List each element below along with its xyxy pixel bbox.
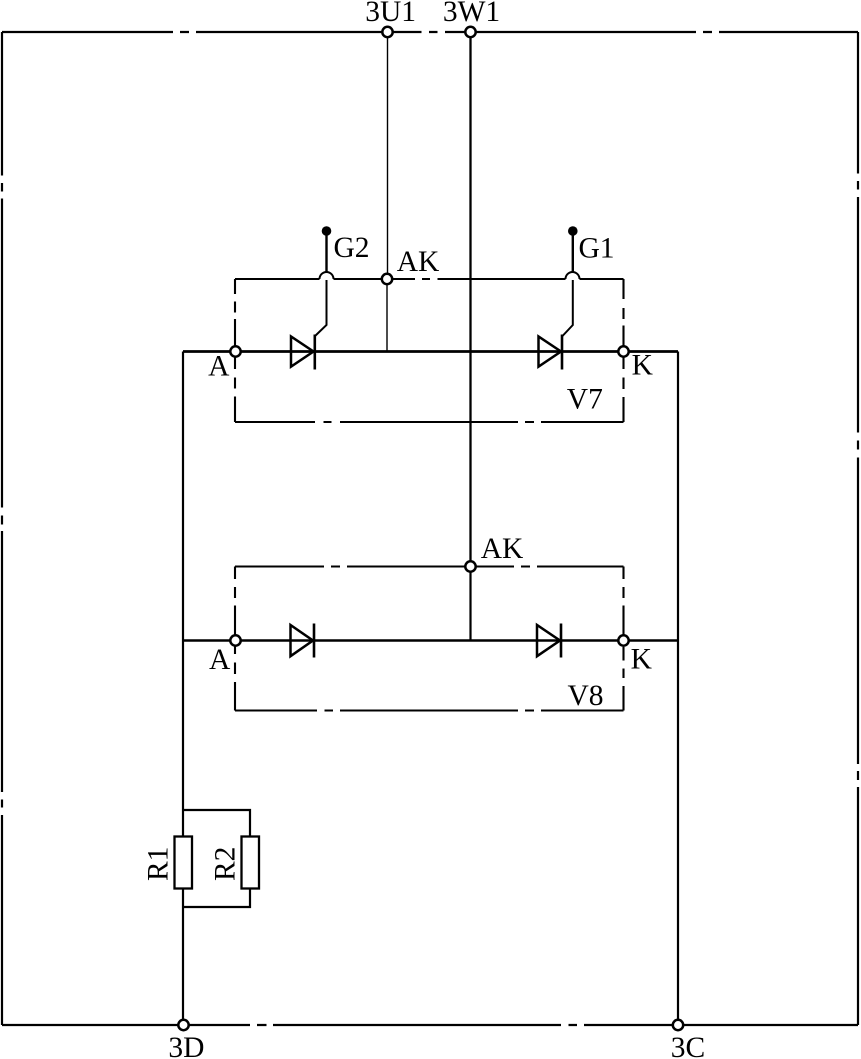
thyristor V7 left: cathode bar [313,335,316,370]
svg-text:V7: V7 [567,384,603,416]
svg-text:A: A [209,644,231,676]
wire: left vertical from R1 down to 3D [182,888,184,1025]
terminal 3W1 [465,27,475,37]
resistor branch: bottom tie R2 [183,888,250,907]
thyristor V7 left: gate lead inside box [315,280,327,337]
svg-text:3D: 3D [168,1032,204,1059]
wire: right vertical from V7 line down to 3C [677,352,679,1026]
wire: V7 AK terminal down to V7 A-K line [386,284,388,352]
thyristor V7 right: cathode bar [561,335,564,370]
terminal V7 K [618,346,628,356]
G1 gate dot [568,226,578,236]
diode V8 left: cathode bar [313,624,316,658]
wire: 3W1 drop through V7 to V8 AK terminal [469,37,471,562]
svg-text:G1: G1 [578,233,614,265]
svg-text:V8: V8 [567,680,603,712]
terminal V8 AK [465,561,475,571]
V7 box right edge [622,279,624,422]
V8 box left edge [234,567,236,711]
wire: 3U1 drop to V7 AK terminal [387,37,389,274]
wire: V8 main A-K horizontal [183,639,678,641]
outer boundary left edge (chain line) [1,32,3,1025]
V7 box left edge [234,279,236,422]
outer boundary bottom edge (chain line) [2,1024,858,1026]
resistor R2 [242,837,260,889]
svg-text:3U1: 3U1 [365,0,416,28]
V7 module box [235,279,624,422]
V8 box bottom edge [235,709,624,711]
terminal V7 A [230,346,240,356]
svg-text:R1: R1 [143,847,175,881]
svg-text:G2: G2 [333,232,369,264]
thyristor V7 right: gate bump on boundary [566,272,580,279]
svg-text:K: K [632,350,653,382]
terminal 3U1 [382,27,392,37]
wire: V8 AK terminal down to V8 A-K line [469,572,471,641]
wire: left vertical from V7 line down to R1 [182,352,184,838]
terminal V8 A [230,635,240,645]
svg-text:3C: 3C [671,1032,705,1059]
V8 box top edge [235,565,624,567]
thyristor V7 right: gate lead inside box [562,280,573,337]
V8 module box [235,567,624,711]
thyristor V7 right: triangle [539,337,562,367]
outer boundary right edge (chain line) [857,32,859,1025]
resistor R1 [175,837,193,889]
V7 box bottom edge [235,421,624,423]
svg-text:3W1: 3W1 [443,0,500,28]
V8 box right edge [622,567,624,711]
svg-text:A: A [208,351,230,383]
thyristor V7 right: gate lead above boundary to G1 dot [572,234,574,272]
thyristor V7 left: gate lead above boundary to G2 dot [325,234,327,272]
svg-text:AK: AK [481,533,524,565]
wire: V7 main A-K horizontal [183,350,678,353]
terminal 3D [178,1020,188,1030]
thyristor V7 left: gate bump on boundary [320,272,334,279]
thyristor V7 left: triangle [291,337,314,367]
terminal 3C [673,1020,683,1030]
svg-text:K: K [631,644,652,676]
diode V8 right: triangle [537,625,560,656]
diode V8 left: triangle [291,625,314,656]
terminal V8 K [618,635,628,645]
terminal V7 AK [382,274,392,284]
svg-text:R2: R2 [210,847,242,881]
svg-text:AK: AK [397,246,440,278]
outer boundary top edge (chain line) [2,31,858,33]
resistor branch: top tie R2 [183,810,250,837]
diode V8 right: cathode bar [560,624,563,658]
G2 gate dot [322,226,332,236]
V7 box top edge [235,278,624,280]
